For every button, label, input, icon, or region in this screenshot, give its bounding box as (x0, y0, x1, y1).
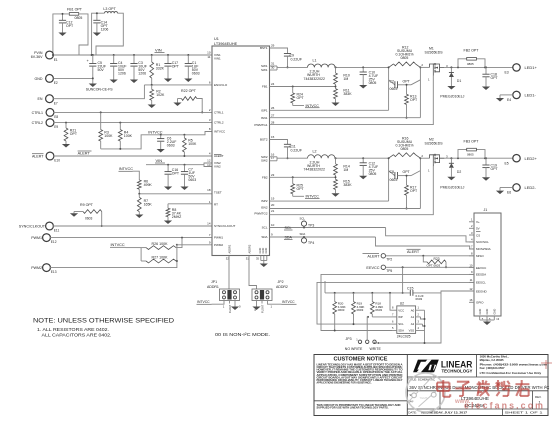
wire ALERT net (53, 155, 212, 157)
svg-text:J1: J1 (484, 208, 488, 212)
diode D1 PMEG2010ELJ (450, 67, 452, 72)
svg-text:0805: 0805 (401, 56, 409, 60)
svg-text:15: 15 (271, 135, 275, 139)
resistor R18 4.99K 0603 (371, 293, 373, 302)
svg-text:R27 100K: R27 100K (152, 256, 169, 260)
wire SYNC net (53, 225, 212, 227)
svg-text:SDA: SDA (398, 329, 404, 333)
svg-text:PWM1: PWM1 (31, 236, 42, 240)
svg-text:U2: U2 (400, 301, 404, 305)
wire FB1 net (270, 86, 336, 88)
svg-text:ADDR2: ADDR2 (247, 244, 251, 253)
wire LED1- to gnd (500, 94, 513, 96)
op-amp U1 LT3964EUHE (IC body) (212, 46, 270, 256)
svg-text:0.22UF: 0.22UF (291, 148, 302, 152)
svg-text:0603: 0603 (188, 178, 196, 182)
capacitor C4 10UF 50V 1206 (113, 55, 115, 64)
svg-text:GND: GND (493, 309, 497, 315)
svg-text:ADDR1: ADDR1 (227, 244, 231, 253)
svg-text:E7: E7 (54, 102, 58, 106)
svg-text:OPT: OPT (172, 65, 180, 69)
svg-text:24: 24 (271, 82, 275, 86)
test point TP3 (303, 227, 305, 229)
svg-text:www.: www. (454, 399, 471, 405)
wire ALERT to J1 MISO (386, 255, 475, 257)
svg-text:PWMTG2: PWMTG2 (254, 212, 267, 216)
svg-text:EEVCC: EEVCC (476, 266, 487, 270)
svg-text:SW2: SW2 (261, 159, 268, 163)
resistor R5 100K (183, 135, 185, 138)
svg-text:EN: EN (38, 97, 43, 101)
svg-text:APPLICATION. COMPONENT SUBSTI: APPLICATION. COMPONENT SUBSTITUTION AND … (317, 374, 403, 377)
svg-text:E10: E10 (54, 159, 60, 163)
capacitor C1 1UF 50V 0603 (187, 55, 189, 64)
terminal E6 LED2- (513, 184, 520, 191)
wire VIN2 net (146, 164, 204, 166)
svg-text:383K: 383K (343, 183, 352, 187)
svg-text:SUNCON-CE-FS: SUNCON-CE-FS (86, 88, 113, 92)
terminal E10 ALERT (46, 152, 54, 160)
svg-text:L1: L1 (313, 59, 317, 63)
svg-text:PMEG2010ELJ: PMEG2010ELJ (440, 185, 464, 189)
svg-text:OPT: OPT (66, 24, 74, 28)
svg-text:0603: 0603 (416, 297, 423, 301)
svg-text:GND: GND (264, 248, 268, 254)
svg-text:A0: A0 (411, 308, 415, 312)
capacitor C11 0.22UF (284, 143, 291, 145)
red watermark fragment top right (541, 362, 552, 364)
svg-text:LINEAR TECHNOLOGY HAS MADE A B: LINEAR TECHNOLOGY HAS MADE A BEST EFFORT… (317, 364, 403, 367)
wire BST1 to C9 (270, 48, 288, 54)
wire EEVCC rail left leg (324, 281, 326, 293)
diode D2 PMEG2010ELJ (450, 158, 452, 163)
svg-text:0603: 0603 (390, 87, 398, 91)
terminal E9 CTRL2 (46, 119, 54, 127)
svg-text:12: 12 (207, 159, 211, 163)
wire EEGND net (375, 291, 475, 343)
wire SW1 rail to sense (335, 66, 389, 68)
capacitor C2 OPT 0603 (389, 80, 395, 85)
svg-text:SW1: SW1 (261, 68, 268, 72)
svg-text:ALERT: ALERT (32, 154, 44, 158)
wire PWMTG1 net to M1 gate (270, 76, 434, 125)
resistor R17 OPT (406, 176, 408, 186)
svg-text:CTRL2: CTRL2 (214, 121, 224, 125)
title block horizontal divider 1 (407, 376, 548, 378)
svg-text:INTVCC: INTVCC (306, 104, 320, 108)
svg-text:E6: E6 (507, 191, 511, 195)
svg-text:SUPPLIED FOR USE WITH LINEAR T: SUPPLIED FOR USE WITH LINEAR TECHNOLOGY … (317, 407, 389, 410)
svg-text:ALERT: ALERT (367, 254, 380, 258)
svg-text:SCL: SCL (398, 322, 404, 326)
svg-text:ADDR1: ADDR1 (207, 285, 219, 289)
svg-text:VERIFY PROPER AND RELIABLE OPE: VERIFY PROPER AND RELIABLE OPERATION IN … (317, 371, 404, 374)
wire E2 to gnd node (53, 77, 92, 79)
resistor R4 100K (119, 123, 121, 130)
svg-text:FLOAT: FLOAT (260, 304, 264, 313)
svg-text:EEVCC: EEVCC (366, 266, 379, 270)
capacitor C14 (OPT) (96, 13, 98, 20)
svg-text:U1: U1 (214, 37, 219, 41)
capacitor C9 0.22UF (284, 53, 291, 55)
svg-text:0.22UF: 0.22UF (291, 58, 302, 62)
svg-text:E5: E5 (505, 161, 509, 165)
svg-text:FB2: FB2 (262, 176, 268, 180)
svg-text:WP: WP (398, 315, 403, 319)
test point TP5 (381, 265, 385, 269)
terminal E7 EN (46, 95, 54, 103)
resistor R27 100K (146, 259, 176, 263)
op-amp U2 24LC025 (EEPROM) (397, 306, 416, 334)
svg-text:SCL: SCL (300, 217, 306, 221)
svg-text:OPT: OPT (410, 98, 418, 102)
svg-text:PWM2: PWM2 (31, 266, 42, 270)
capacitor C19 OPT (485, 158, 487, 165)
svg-text:SCL: SCL (262, 226, 268, 230)
wire JP1 pins below (223, 301, 225, 304)
svg-text:ISN2: ISN2 (261, 206, 268, 210)
svg-text:TECHNOLOGY: TECHNOLOGY (442, 368, 473, 373)
capacitor C18 OPT (485, 67, 487, 74)
svg-text:5V: 5V (476, 227, 480, 231)
terminal E1 PVIN (46, 51, 54, 59)
capacitor C5 22UF 50V (92, 55, 94, 63)
svg-text:OPT: OPT (70, 132, 78, 136)
svg-text:1. ALL RESISTORS ARE 0402.: 1. ALL RESISTORS ARE 0402. (37, 327, 109, 332)
svg-text:2MHZ: 2MHZ (172, 215, 182, 219)
svg-text:SDA: SDA (285, 236, 293, 240)
svg-text:100K: 100K (104, 134, 113, 138)
svg-text:0805: 0805 (75, 16, 83, 20)
node INTVCC label ch2 (293, 195, 304, 197)
svg-text:11: 11 (207, 55, 210, 59)
wire U2 VCC to rail (390, 293, 392, 310)
svg-text:0805: 0805 (401, 147, 409, 151)
svg-text:10: 10 (207, 51, 211, 55)
svg-text:ISP1: ISP1 (261, 109, 268, 113)
svg-text:JP3: JP3 (346, 337, 352, 341)
wire WP net (372, 316, 392, 318)
svg-text:CTRL2: CTRL2 (32, 121, 43, 125)
svg-text:CIRCUIT THAT MEETS CUSTOMER-SU: CIRCUIT THAT MEETS CUSTOMER-SUPPLIED SPE… (317, 366, 403, 369)
svg-text:383K: 383K (343, 92, 352, 96)
wire M1 source to output (444, 66, 512, 68)
svg-text:100K: 100K (188, 142, 197, 146)
svg-text:C2: C2 (390, 79, 395, 83)
terminal E4 LED1- (513, 91, 520, 98)
svg-text:EN/UVLO: EN/UVLO (214, 83, 228, 87)
capacitor C6 2.2UF 0603 (160, 135, 162, 139)
svg-text:THIS CIRCUIT IS PROPRIETARY TO: THIS CIRCUIT IS PROPRIETARY TO LINEAR TE… (317, 404, 401, 407)
svg-text:ALERT: ALERT (407, 250, 420, 254)
linear technology logo (413, 360, 439, 373)
svg-text:INTVCC: INTVCC (197, 300, 210, 304)
svg-text:HOWEVER, IT REMAINS THE CUSTOM: HOWEVER, IT REMAINS THE CUSTOMER'S RESPO… (317, 369, 403, 372)
svg-text:GND: GND (485, 309, 489, 315)
resistor R15 383K (335, 177, 337, 179)
svg-text:1630 McCarthy Blvd.,: 1630 McCarthy Blvd., (480, 355, 509, 359)
gray stamp circle watermark (406, 373, 445, 412)
wire sense legs ch2 (388, 158, 390, 201)
resistor R7 165K (137, 197, 141, 211)
title block horizontal divider 3 (407, 408, 548, 410)
svg-text:E9: E9 (54, 125, 58, 129)
svg-text:PERFORMANCE OR RELIABILITY. C: PERFORMANCE OR RELIABILITY. CONTACT LINE… (317, 379, 404, 382)
resistor R12 SUSUMU 0.1OHM 1% 0805 (sense) (389, 64, 394, 68)
svg-text:18: 18 (207, 188, 211, 192)
wire EN/UVLO net (144, 84, 212, 86)
resistor R24 OPT (292, 87, 294, 93)
svg-text:00 IS NON-I²C MODE.: 00 IS NON-I²C MODE. (215, 332, 270, 337)
wire BST2 to C11 (270, 140, 288, 145)
svg-text:0603: 0603 (338, 308, 345, 312)
svg-text:GPIO: GPIO (476, 301, 484, 305)
svg-text:GND: GND (35, 77, 43, 81)
svg-text:D1: D1 (457, 79, 461, 83)
svg-text:Si2365EDS: Si2365EDS (425, 51, 444, 55)
test point TP4 (303, 236, 305, 238)
wire EESDA net (321, 274, 474, 330)
svg-text:INTVCC: INTVCC (148, 130, 162, 134)
title block vertical dividers (439, 391, 441, 409)
svg-text:24LC025: 24LC025 (397, 334, 411, 338)
svg-text:PWM2: PWM2 (214, 243, 223, 247)
svg-text:27: 27 (271, 113, 275, 117)
svg-text:Fax: (408)434-0507: Fax: (408)434-0507 (480, 366, 506, 370)
svg-text:20: 20 (271, 203, 275, 207)
resistor R23 OPT 0603 (423, 256, 427, 262)
wire U1 GND pins to ground (260, 256, 262, 261)
ferrite bead FB3 OPT 0805 (458, 150, 467, 159)
wire ISN1 net (270, 117, 421, 119)
svg-text:499K: 499K (144, 183, 153, 187)
svg-text:JP2: JP2 (278, 280, 284, 284)
svg-text:0603: 0603 (192, 72, 200, 76)
svg-text:elecfans.com: elecfans.com (464, 401, 543, 411)
resistor R14 1M (335, 158, 337, 164)
connector J1 body (474, 213, 501, 316)
svg-text:APPLICATIONS ENGINEERING FOR A: APPLICATIONS ENGINEERING FOR ASSISTANCE. (317, 382, 372, 385)
resistor R8 37.4K 2MHZ (167, 204, 169, 208)
terminal E2 GND (46, 75, 54, 83)
capacitor C8 OPT 0603 (389, 171, 395, 176)
svg-text:LED2+: LED2+ (525, 156, 538, 161)
svg-text:CTRL1: CTRL1 (214, 111, 224, 115)
svg-text:INTVCC: INTVCC (306, 195, 320, 199)
svg-text:0603: 0603 (85, 216, 93, 220)
svg-text:OPT: OPT (403, 170, 411, 174)
capacitor C17 OPT (167, 55, 169, 64)
svg-text:BST1: BST1 (260, 46, 268, 50)
svg-text:C8: C8 (390, 170, 395, 174)
svg-text:ALL CAPACITORS ARE 0402.: ALL CAPACITORS ARE 0402. (42, 332, 112, 337)
svg-text:VIN: VIN (156, 158, 163, 163)
svg-text:0805: 0805 (467, 62, 474, 66)
svg-text:11: 11 (470, 278, 473, 282)
svg-text:FB1 OPT: FB1 OPT (67, 8, 83, 12)
svg-text:OPT: OPT (491, 76, 499, 80)
svg-text:74438322022: 74438322022 (304, 77, 325, 81)
svg-text:102K: 102K (156, 93, 165, 97)
wire RT net (168, 203, 212, 205)
resistor R2 102K (150, 89, 154, 100)
resistor R21 OPT (65, 123, 67, 128)
svg-text:29: 29 (271, 44, 275, 48)
wire ADDR2 to JP2 (249, 256, 257, 289)
svg-text:6V-36V: 6V-36V (31, 55, 43, 59)
svg-text:E13: E13 (51, 270, 57, 274)
svg-text:OPT: OPT (172, 172, 180, 176)
resistor R6 499K (137, 180, 141, 189)
wire SW2 rail to sense (335, 157, 389, 159)
svg-text:74438322022: 74438322022 (304, 168, 325, 172)
svg-text:L3 OPT: L3 OPT (103, 7, 116, 11)
svg-text:PWM1: PWM1 (214, 236, 223, 240)
wire EEVCC rail (325, 292, 410, 294)
inductor L3 (OPT) (105, 12, 118, 14)
svg-text:D2: D2 (457, 170, 461, 174)
wire CTRL2 net (53, 122, 212, 124)
svg-text:ADDR2: ADDR2 (276, 285, 288, 289)
capacitor C16 OPT (167, 165, 169, 172)
svg-text:0603: 0603 (390, 178, 398, 182)
svg-text:ISP2: ISP2 (261, 199, 268, 203)
svg-text:8WE: 8WE (408, 399, 415, 403)
resistor R1 332K (151, 55, 153, 62)
svg-text:0603: 0603 (167, 144, 175, 148)
wire JP2 pins below (256, 301, 258, 307)
wire SW2 node (270, 156, 278, 158)
svg-text:SYNC/CLKOUT: SYNC/CLKOUT (214, 224, 236, 228)
resistor R26 100K (146, 246, 176, 250)
wire EEVCC to J1 (386, 266, 475, 268)
capacitor C7 1UF 50V 0603 (184, 165, 186, 172)
U2 pin stubs and numbers (392, 309, 397, 311)
svg-text:VIN: VIN (155, 48, 162, 53)
svg-text:165K: 165K (144, 202, 153, 206)
svg-text:E8: E8 (54, 115, 58, 119)
svg-text:JP1: JP1 (211, 280, 217, 284)
svg-text:1206: 1206 (118, 72, 126, 76)
wire PWM1 net (50, 237, 212, 239)
svg-text:E11: E11 (54, 229, 60, 233)
svg-text:OPT: OPT (491, 167, 499, 171)
wire PWMTG2 net to M2 gate (270, 166, 434, 214)
svg-text:INTVCC: INTVCC (282, 300, 295, 304)
svg-text:SYNC/CLKOUT: SYNC/CLKOUT (19, 225, 46, 229)
capacitor C12ch2 4.7UF 25V 0805 (362, 158, 364, 163)
svg-text:Phone: (408)432-1900 www.lin: Phone: (408)432-1900 www.linear.com (480, 362, 548, 366)
svg-text:28: 28 (271, 120, 275, 124)
svg-text:332K: 332K (156, 67, 165, 71)
svg-text:WRITE: WRITE (370, 347, 382, 351)
svg-text:Milpitas, CA 95035: Milpitas, CA 95035 (480, 358, 505, 362)
svg-text:A1: A1 (411, 315, 415, 319)
svg-text:ALERT: ALERT (78, 152, 91, 156)
svg-text:SDA: SDA (261, 235, 267, 239)
svg-text:TP4: TP4 (308, 241, 314, 245)
resistor R3 100K (100, 112, 102, 129)
red watermark chinese characters (442, 380, 444, 397)
svg-text:INTVCC: INTVCC (214, 130, 226, 134)
svg-text:TSET: TSET (214, 191, 222, 195)
svg-text:BST2: BST2 (260, 138, 268, 142)
svg-text:1M: 1M (343, 77, 348, 81)
svg-text:21: 21 (271, 209, 275, 213)
test point TP2 (381, 254, 385, 258)
svg-text:CUSTOMER NOTICE: CUSTOMER NOTICE (334, 356, 389, 362)
svg-text:SDA: SDA (300, 232, 306, 236)
wire EN to divider (53, 85, 144, 99)
svg-text:OPT: OPT (410, 189, 418, 193)
svg-text:PMEG2010ELJ: PMEG2010ELJ (440, 95, 464, 99)
svg-text:23: 23 (271, 173, 275, 177)
title block outer frame (314, 355, 548, 416)
customer notice box divider (406, 355, 408, 416)
svg-text:SCK/SCL: SCK/SCL (476, 240, 489, 244)
wire CTRL1 net (53, 111, 212, 113)
wire INTVCC to R26 R27 (126, 247, 142, 249)
svg-text:14: 14 (207, 222, 211, 226)
wire TSET net (139, 193, 212, 195)
resistor R19 4.99K 0603 (353, 293, 355, 302)
resistor R16 SUSUMU 0.1OHM 1% 0805 (sense) (389, 155, 394, 159)
svg-text:0603: 0603 (375, 308, 382, 312)
resistor R25 OPT (292, 177, 294, 183)
capacitor C10 4.7UF 25V 0805 (362, 67, 364, 72)
terminal E3 LED1+ (513, 64, 520, 71)
transistor M1 Si2365EDS (420, 66, 429, 68)
wire sense legs ch1 (388, 67, 390, 110)
svg-text:16: 16 (469, 298, 473, 302)
svg-text:C15: C15 (407, 286, 413, 290)
wire M2 source to output (444, 157, 512, 159)
svg-text:NO WRITE: NO WRITE (345, 347, 363, 351)
terminal E13 PWM2 (43, 264, 51, 272)
svg-text:VCC: VCC (398, 308, 404, 312)
node INTVCC label ch1 (293, 105, 304, 107)
resistor R13 OPT (406, 85, 408, 95)
svg-text:FLOAT: FLOAT (228, 304, 232, 313)
wire L3 branch (92, 13, 105, 55)
svg-text:0805: 0805 (369, 81, 377, 85)
svg-text:A2: A2 (411, 322, 415, 326)
svg-text:NOTE: UNLESS OTHERWISE SPECIFI: NOTE: UNLESS OTHERWISE SPECIFIED (33, 318, 174, 325)
wire SCL net (270, 227, 386, 229)
svg-text:LT3964EUHE: LT3964EUHE (214, 42, 238, 46)
svg-text:PVIN: PVIN (34, 51, 43, 55)
svg-text:GND: GND (478, 309, 482, 315)
svg-text:LED2-: LED2- (525, 185, 537, 190)
wire ADDR1 to JP1 (228, 256, 230, 289)
svg-text:CTRL1: CTRL1 (32, 111, 43, 115)
svg-text:VSS: VSS (409, 329, 415, 333)
svg-text:EESCL: EESCL (476, 281, 486, 285)
resistor R10 1M (335, 67, 337, 73)
wire EESCL net (317, 282, 474, 324)
svg-text:E4: E4 (507, 98, 511, 102)
capacitor C15 0.1UF 0603 (409, 290, 411, 296)
svg-text:FB3 OPT: FB3 OPT (464, 139, 480, 143)
ferrite bead FB1 (OPT) (69, 13, 78, 16)
svg-text:SCL: SCL (285, 226, 292, 230)
svg-text:26: 26 (271, 106, 275, 110)
svg-text:INTVCC: INTVCC (119, 167, 133, 171)
svg-text:TP5: TP5 (386, 269, 392, 273)
terminal E8 CTRL1 (46, 109, 54, 117)
wire FB2 net (270, 176, 336, 178)
svg-text:VIN1: VIN1 (214, 57, 221, 61)
